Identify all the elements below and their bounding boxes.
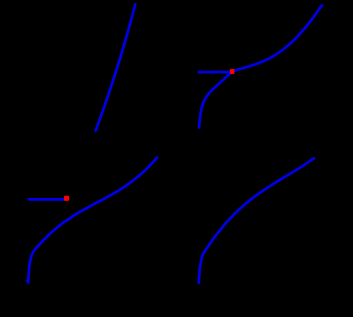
speck near B tip (26, 280, 28, 282)
wire: lower branch of solution curve C (rises toward red dot) (199, 72, 232, 128)
wire: lower-left solution curve B (28, 157, 157, 282)
node: red initial point (left) (64, 196, 69, 201)
wire: horizontal initial-condition segment (right) (198, 71, 231, 74)
wire: upper branch of solution curve C (through red dot to top right) (232, 6, 322, 72)
wire: horizontal initial-condition segment (left) (28, 198, 65, 201)
node: red initial point (right) (230, 69, 235, 74)
wire: lower-right solution curve D (199, 158, 314, 283)
wire: steep solution segment A (top-left) (96, 4, 136, 131)
